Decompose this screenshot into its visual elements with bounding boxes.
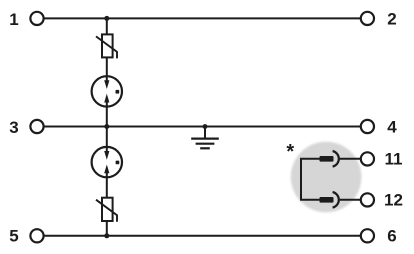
terminal 5 [30,229,43,242]
plug contact pin 11 [320,156,334,162]
svg-text:6: 6 [387,226,396,245]
gas discharge tube F1 [92,76,122,106]
terminal 1 [30,12,43,25]
socket contact 11 (arc) [333,151,339,167]
wire: ground stub [204,127,206,138]
ground junction on row 3 [203,124,208,129]
junction row 5 [104,233,109,238]
wire: row 3 to gas discharge tube F2 [106,127,108,148]
junction row 1 [104,16,109,21]
wire row 5-6 [44,235,360,237]
varistor R1 diagonal stroke [96,36,117,58]
svg-text:*: * [286,141,294,163]
wire: varistor R1 to gas discharge tube F1 [106,57,108,77]
terminal 4 [361,120,374,133]
terminal 11 [361,152,374,165]
junction row 3 [104,124,109,129]
wire: socket 12 to terminal 12 [339,199,361,201]
wire: gas discharge tube F1 to row 3 [106,107,108,127]
wire: gas discharge tube F2 to varistor R2 [106,177,108,198]
wire: row 1 junction to varistor R1 [106,18,108,35]
svg-text:2: 2 [387,9,396,28]
svg-text:3: 3 [9,118,18,137]
earth ground symbol [191,139,219,149]
varistor R2 diagonal stroke [96,200,117,222]
svg-text:11: 11 [385,149,403,168]
varistor R1 body [102,34,113,57]
terminal 3 [30,120,43,133]
terminal 12 [361,193,374,206]
wire row 1-2 [44,17,360,19]
svg-text:5: 5 [9,227,18,246]
highlight circle (optional remote-contact marking) [291,142,362,213]
wire: varistor R2 to row 5 [106,221,108,236]
svg-text:1: 1 [9,10,18,29]
varistor R2 body [102,198,113,221]
svg-text:12: 12 [384,190,403,209]
svg-text:4: 4 [387,117,397,136]
plug contact pin 12 [320,197,334,203]
socket contact 12 (arc) [333,192,339,208]
wire row 3-4 [44,126,360,128]
gas discharge tube F2 [92,147,122,177]
wire: socket 11 to terminal 11 [339,158,361,160]
terminal 6 [361,229,374,242]
terminal 2 [361,12,374,25]
wire: remote indication loop (left link) [301,159,320,200]
